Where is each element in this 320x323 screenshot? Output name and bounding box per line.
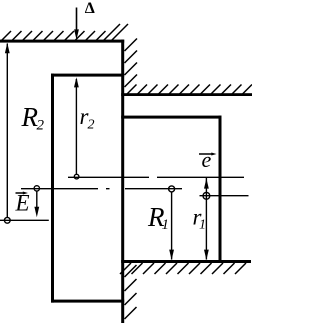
node circle C2 (piston centre, end of r2) bbox=[74, 174, 79, 179]
vector E arrow bbox=[36, 191, 38, 212]
node circle C5 (rod bore centre, crosshair) bbox=[203, 192, 210, 199]
node circle C4 (start of R1) bbox=[169, 186, 175, 192]
dimension r2 line bbox=[75, 79, 77, 174]
rod right edge bbox=[219, 116, 222, 262]
piston bottom edge bbox=[51, 300, 124, 303]
top-left ceiling wall bbox=[0, 40, 124, 43]
clearance arrow for Delta bbox=[76, 8, 78, 34]
centreline B (left, through C3 and C4) bbox=[21, 188, 182, 190]
hatching above top-left ceiling bbox=[1, 24, 128, 41]
rod top edge bbox=[121, 116, 221, 119]
hatching above lower-right ceiling bbox=[127, 85, 252, 95]
centreline A (float axis) bbox=[68, 176, 244, 178]
dimension R2 line bbox=[6, 44, 8, 218]
dimension R1 line bbox=[171, 192, 173, 260]
svg-text:1: 1 bbox=[162, 217, 170, 233]
floor wall bbox=[121, 260, 251, 263]
hatching right of lower wall bbox=[125, 265, 137, 319]
piston top edge bbox=[51, 74, 124, 77]
piston left edge bbox=[51, 74, 54, 303]
svg-text:e: e bbox=[202, 147, 212, 172]
svg-text:Δ: Δ bbox=[85, 0, 95, 17]
svg-text:1: 1 bbox=[199, 218, 206, 233]
left bore centre line bbox=[0, 219, 49, 221]
svg-text:2: 2 bbox=[88, 118, 95, 133]
svg-text:2: 2 bbox=[37, 118, 45, 134]
dimension r1 line with up arrow bbox=[205, 178, 207, 260]
hatching below floor bbox=[120, 263, 246, 274]
lower-right ceiling wall bbox=[121, 93, 252, 96]
hatching right of step wall bbox=[125, 39, 138, 88]
node circle C3 (start of E vector) bbox=[34, 186, 39, 191]
centreline B2 (right, through C5) bbox=[200, 195, 249, 197]
svg-text:E: E bbox=[15, 191, 30, 216]
housing step wall / piston right edge (continuous vertical) bbox=[121, 40, 124, 323]
node circle C1 (left bore centre, end of R2) bbox=[4, 217, 10, 223]
